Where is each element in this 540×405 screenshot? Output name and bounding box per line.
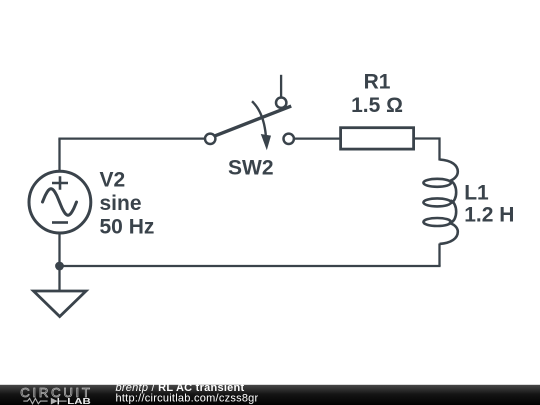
ground [34,291,87,317]
wire bottom horizontal from node A to bottom-right corner [58,265,440,267]
SW2 actuation arrowhead [261,134,271,150]
L1 turn 1 loop [423,179,451,187]
SW2 blade arm [215,106,291,136]
switch SW2 [205,75,294,151]
wire from V2 bottom terminal through node A to ground [58,233,60,292]
svg-text:1.2 H: 1.2 H [464,204,514,227]
SW2 actuation arrow arc [252,101,266,135]
svg-text:1.5 Ω: 1.5 Ω [351,94,403,117]
node A junction dot [55,262,64,271]
L1 turn 2 loop [423,198,451,206]
wire from top-left corner down to V2 top terminal [58,139,60,171]
footer background [0,384,540,405]
svg-text:V2: V2 [100,169,126,192]
L1 bump between turns 2-3 [450,201,456,223]
logo diode cathode bar [57,397,59,404]
SW2 upper terminal circle [276,98,286,108]
svg-text:L1: L1 [464,182,489,205]
SW2 left terminal circle [205,134,215,144]
svg-text:http://circuitlab.com/czss8gr: http://circuitlab.com/czss8gr [116,392,259,404]
resistor R1 [341,128,414,149]
svg-text:50 Hz: 50 Hz [100,215,155,238]
footer bar [0,384,540,405]
V2 sine waveform symbol [43,189,77,216]
V2 minus polarity mark [52,221,68,224]
svg-text:R1: R1 [364,71,391,94]
logo diode lead wire [59,400,67,402]
svg-text:SW2: SW2 [228,157,274,180]
svg-text:sine: sine [100,192,142,215]
L1 bump between turns 1-2 [450,181,456,203]
V2 plus polarity mark [52,176,68,189]
V2 body circle [29,171,91,233]
L1 entry curve [440,160,458,182]
L1 turn 3 loop [423,218,451,226]
wire from L1 bottom down to bottom-right corner [438,244,440,267]
wire from R1 right lead to top-right corner and down to L1 top [414,139,440,161]
logo resistor zigzag [23,398,47,403]
SW2 right terminal circle [284,134,294,144]
wire from SW2 right terminal to R1 left lead [294,137,341,139]
L1 exit curve [440,223,458,244]
logo diode triangle [51,397,58,404]
SW2 upper terminal stub wire [280,75,282,98]
inductor L1 [423,160,457,244]
wire top horizontal from corner to SW2 left terminal [58,137,204,139]
voltage source V2 [29,171,91,233]
svg-text:LAB: LAB [67,396,91,405]
